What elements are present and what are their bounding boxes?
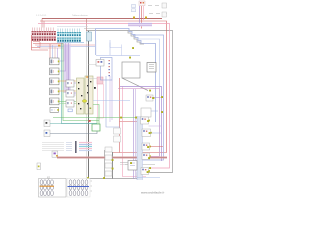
svg-text:1.1 2.4 3.1: 1.1 2.4 3.1 — [36, 15, 47, 17]
svg-text:Tableau division.: Tableau division. — [72, 15, 89, 17]
svg-text:www.archifacile.fr: www.archifacile.fr — [141, 191, 164, 195]
